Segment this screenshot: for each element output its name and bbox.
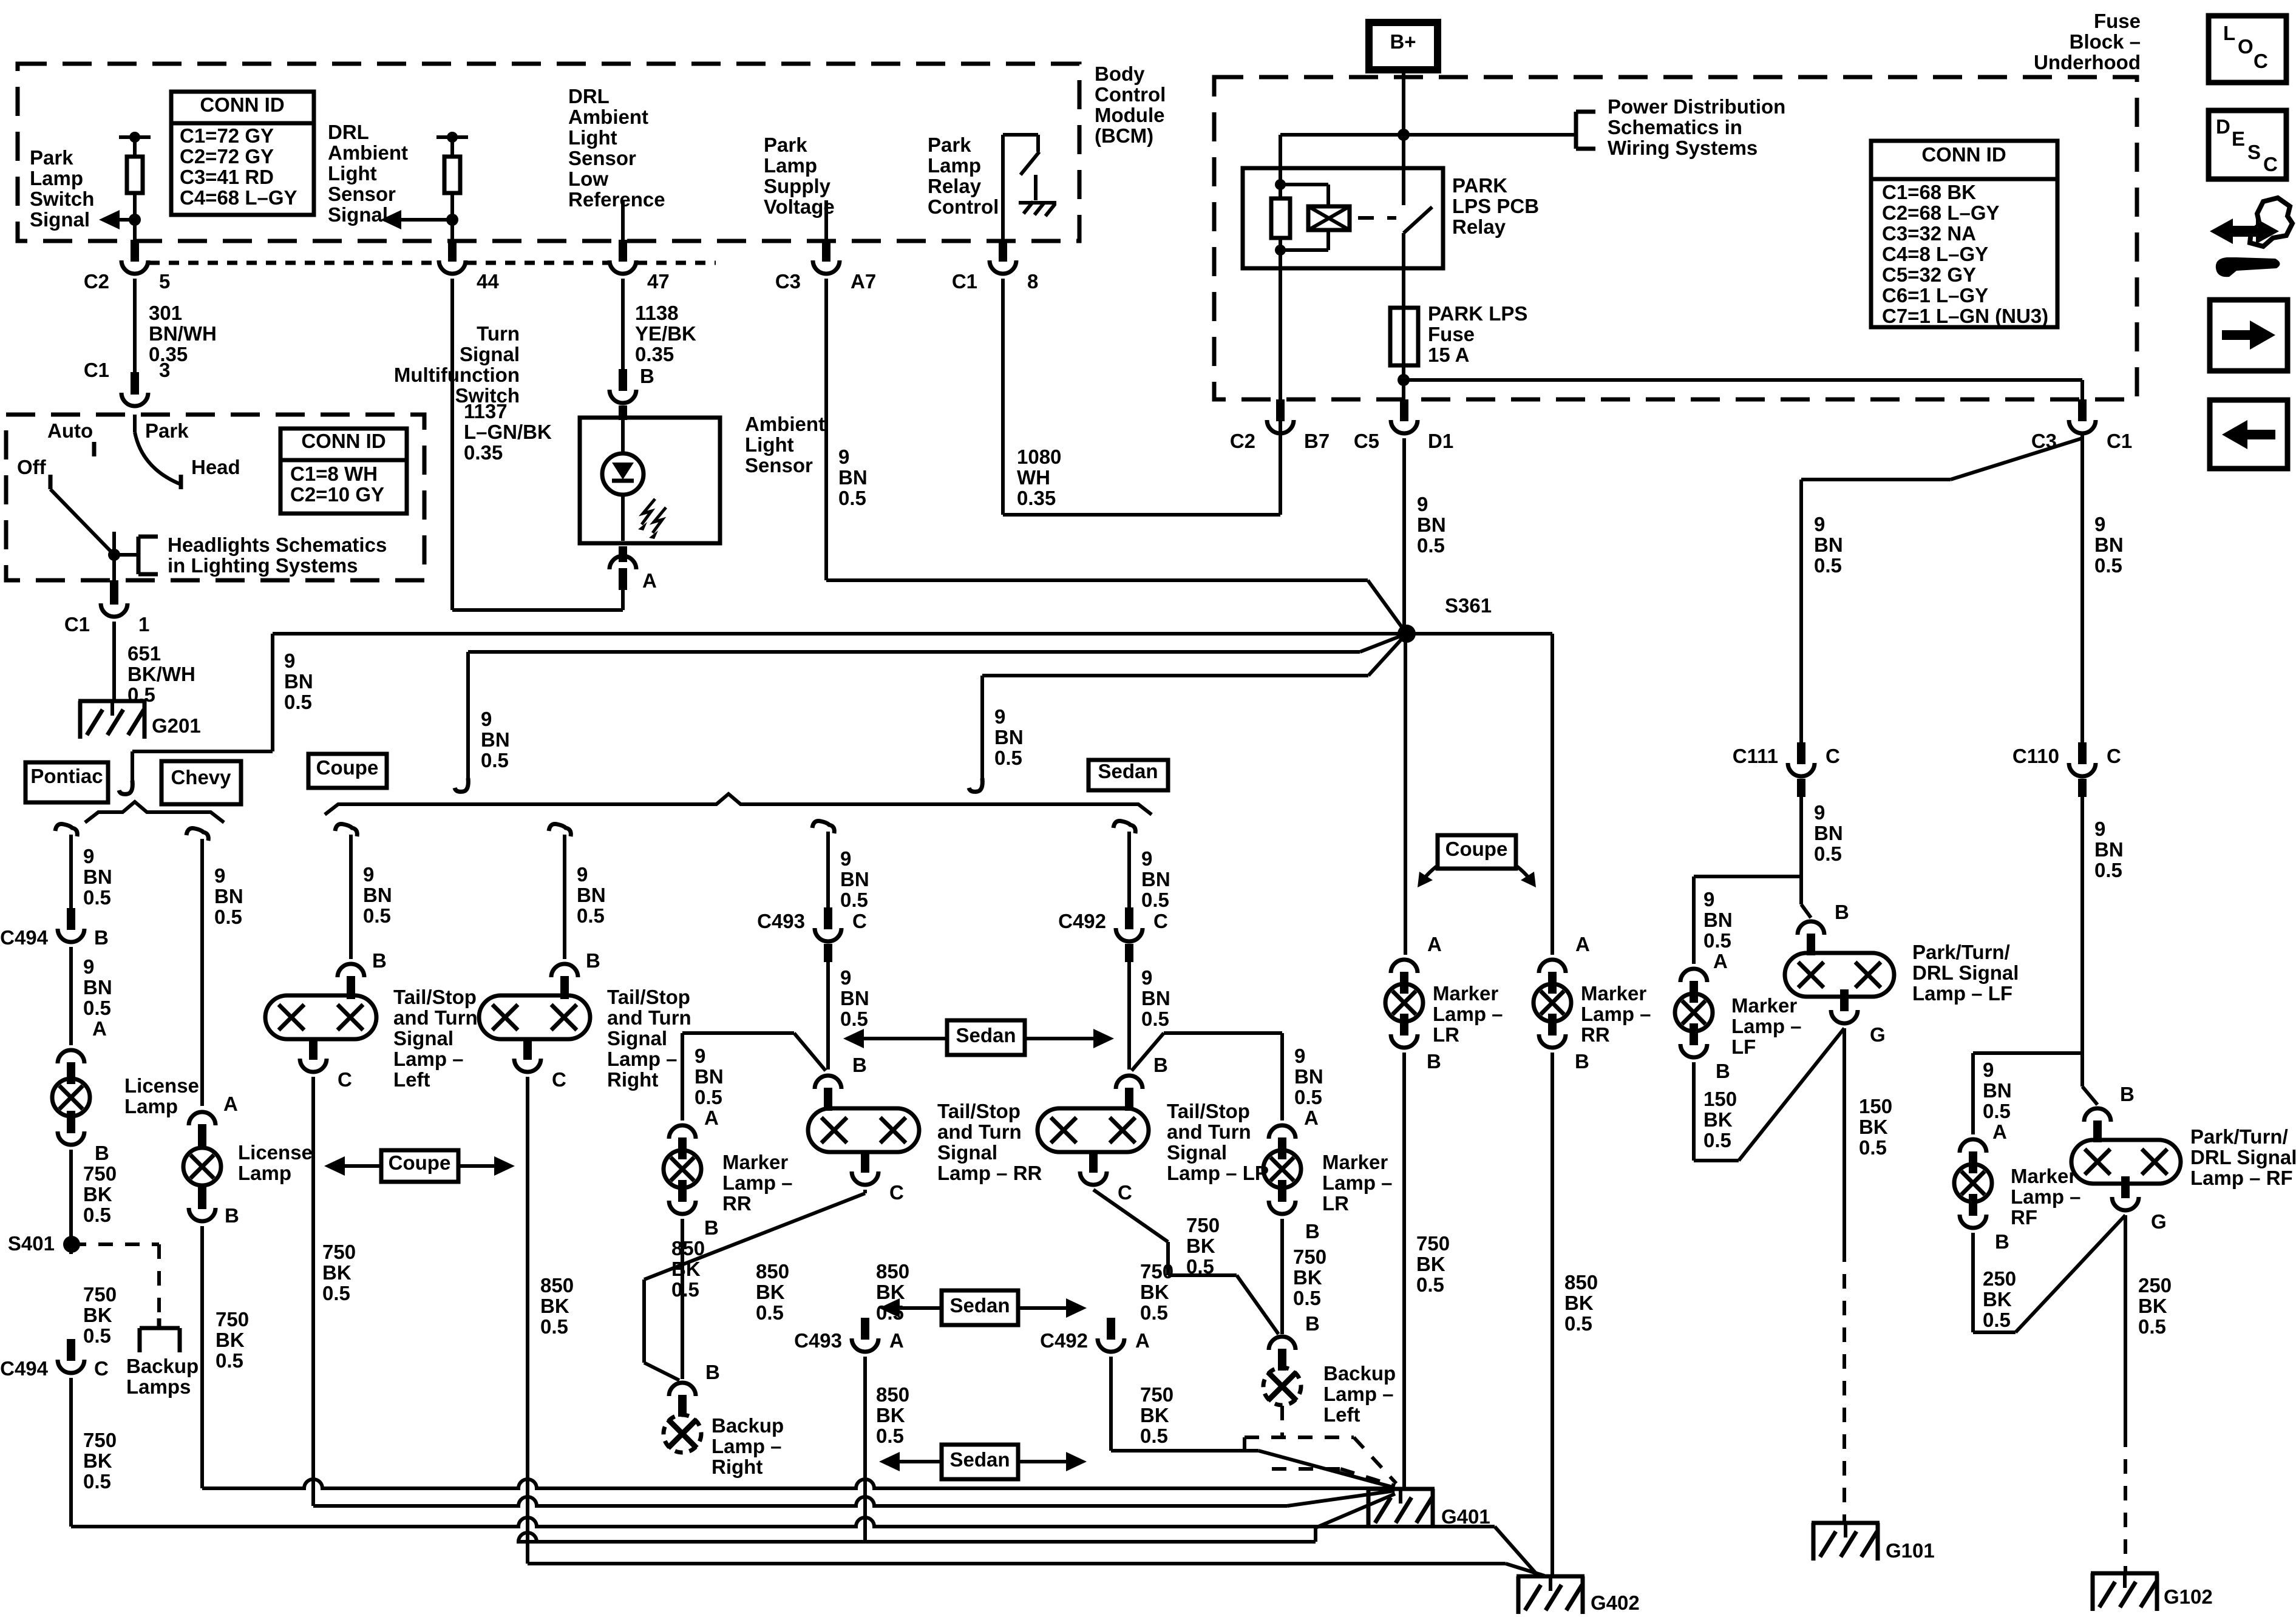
connector pin 44 (BCM) xyxy=(439,260,466,274)
wire park lamp supply inside BCM xyxy=(824,200,828,243)
svg-text:C: C xyxy=(852,910,867,932)
svg-text:8: 8 xyxy=(1027,270,1038,293)
svg-text:C1=8 WH: C1=8 WH xyxy=(290,463,378,485)
hook tail left wire xyxy=(335,824,357,836)
connector C493 pin C xyxy=(815,928,841,941)
svg-text:BK: BK xyxy=(540,1295,569,1317)
svg-text:B: B xyxy=(1716,1060,1730,1082)
connector pin B license lamp xyxy=(58,1131,84,1145)
svg-text:47: 47 xyxy=(647,270,670,293)
svg-text:B: B xyxy=(852,1054,867,1076)
arrow park lamp switch signal xyxy=(115,218,135,222)
svg-text:C: C xyxy=(2107,745,2121,767)
connector pin A license lamp xyxy=(58,1050,84,1063)
svg-text:L: L xyxy=(2223,22,2235,44)
Pontiac label box xyxy=(25,762,108,802)
svg-text:0.5: 0.5 xyxy=(1140,1425,1168,1447)
connector C2 pin 5 (BCM) xyxy=(121,260,148,274)
connector pin B tail lamp right xyxy=(551,964,578,977)
wire tail left ground run xyxy=(311,1077,315,1506)
reference bracket headlights schematics xyxy=(114,553,138,557)
svg-text:Coupe: Coupe xyxy=(1445,838,1508,860)
svg-text:B: B xyxy=(1995,1230,2009,1253)
wire C493A ground run xyxy=(863,1357,867,1542)
svg-text:G102: G102 xyxy=(2164,1585,2213,1608)
ground G401 xyxy=(1367,1487,1435,1491)
svg-text:15 A: 15 A xyxy=(1428,344,1469,366)
hook C492 wire xyxy=(1113,821,1135,833)
connector pin B license lamp chevy xyxy=(189,1208,216,1221)
connector pin G park/turn LF xyxy=(1831,1010,1858,1023)
svg-text:Lamp – RF: Lamp – RF xyxy=(2190,1167,2293,1189)
tail/stop turn signal lamp LR xyxy=(1038,1108,1149,1152)
svg-text:1137: 1137 xyxy=(464,400,508,422)
svg-text:C2=72 GY: C2=72 GY xyxy=(180,145,274,168)
svg-text:BN: BN xyxy=(994,726,1024,748)
svg-text:Right: Right xyxy=(607,1068,658,1091)
resistor R-park-lamp-switch xyxy=(133,137,137,157)
svg-text:License: License xyxy=(124,1074,199,1097)
connector pin A marker RR coupe xyxy=(1539,960,1566,973)
svg-text:Supply: Supply xyxy=(764,175,831,197)
svg-text:250: 250 xyxy=(1983,1267,2016,1290)
svg-text:C: C xyxy=(2263,153,2278,175)
brace coupe/sedan xyxy=(325,794,1152,815)
svg-text:Marker: Marker xyxy=(1581,982,1646,1005)
svg-text:Lamp –: Lamp – xyxy=(1731,1015,1802,1037)
svg-text:G: G xyxy=(1870,1023,1886,1046)
DESC icon box xyxy=(2209,110,2286,179)
svg-text:Signal: Signal xyxy=(607,1027,667,1049)
svg-text:BK: BK xyxy=(1140,1281,1169,1303)
svg-text:9: 9 xyxy=(284,649,295,672)
svg-text:BK: BK xyxy=(1703,1108,1733,1131)
svg-text:Signal: Signal xyxy=(393,1027,453,1049)
wire C492 to tail LR xyxy=(1127,962,1131,1070)
svg-text:750: 750 xyxy=(322,1241,356,1263)
wire marker LR sedan ground xyxy=(1280,1219,1284,1334)
svg-text:C1=72 GY: C1=72 GY xyxy=(180,124,274,147)
backup lamp left xyxy=(1263,1368,1301,1405)
svg-text:D: D xyxy=(2216,115,2230,138)
svg-text:BN: BN xyxy=(1983,1079,2012,1102)
wire tail RR ground to backup right xyxy=(863,1190,867,1193)
svg-text:9: 9 xyxy=(1814,801,1825,824)
svg-text:0.5: 0.5 xyxy=(1141,1008,1169,1030)
svg-text:BK: BK xyxy=(1859,1116,1888,1138)
connector pin A marker LF xyxy=(1680,969,1707,982)
ground G102 xyxy=(2091,1571,2159,1576)
wire relay to fuse xyxy=(1402,268,1405,308)
svg-text:Left: Left xyxy=(1323,1403,1360,1426)
svg-text:0.5: 0.5 xyxy=(1564,1312,1592,1335)
svg-text:B: B xyxy=(1835,901,1849,923)
branch to marker LR sedan xyxy=(1132,1033,1164,1071)
svg-text:Turn: Turn xyxy=(477,322,520,345)
svg-text:A: A xyxy=(642,569,657,592)
back arrow icon box xyxy=(2210,400,2288,469)
svg-text:C1: C1 xyxy=(952,270,977,293)
svg-text:Lamp: Lamp xyxy=(928,154,981,177)
svg-text:850: 850 xyxy=(1564,1271,1598,1293)
svg-text:9: 9 xyxy=(994,705,1005,728)
wrench navigation icon xyxy=(2210,219,2279,244)
svg-text:and Turn: and Turn xyxy=(937,1120,1022,1143)
wire relay coil to B7 xyxy=(1279,268,1282,412)
svg-text:9: 9 xyxy=(481,708,492,730)
svg-text:L–GN/BK: L–GN/BK xyxy=(464,421,552,443)
svg-text:44: 44 xyxy=(477,270,499,293)
B+ terminal box xyxy=(1369,22,1438,70)
wire 9 BN 0.5 supply to S361 xyxy=(824,279,828,580)
connector pin B marker LR sedan xyxy=(1269,1201,1296,1214)
svg-text:0.5: 0.5 xyxy=(840,1008,868,1030)
svg-text:C1: C1 xyxy=(84,359,109,381)
svg-text:Body: Body xyxy=(1095,63,1145,85)
svg-text:Lamp –: Lamp – xyxy=(1323,1383,1394,1405)
reference bracket power distribution xyxy=(1574,112,1578,149)
svg-text:0.5: 0.5 xyxy=(1814,554,1842,577)
wire chevy ground run xyxy=(200,1226,204,1488)
svg-text:C1: C1 xyxy=(64,613,90,636)
svg-text:Light: Light xyxy=(745,433,794,456)
park/turn/DRL signal lamp RF xyxy=(2071,1140,2181,1184)
svg-text:G: G xyxy=(2151,1210,2167,1233)
wire C110 to RF lamp xyxy=(2080,797,2084,1086)
svg-text:BN: BN xyxy=(1294,1065,1323,1088)
svg-text:S361: S361 xyxy=(1445,594,1492,617)
svg-text:B: B xyxy=(1305,1220,1320,1242)
svg-text:Lamp –: Lamp – xyxy=(712,1435,782,1457)
svg-text:Lamp – LF: Lamp – LF xyxy=(1912,982,2012,1005)
svg-text:5: 5 xyxy=(159,270,170,293)
svg-text:and Turn: and Turn xyxy=(607,1006,691,1029)
svg-text:DRL: DRL xyxy=(328,121,369,143)
branch to marker RR xyxy=(794,1033,826,1071)
connector pin B backup right xyxy=(669,1383,696,1396)
wire tail right ground run xyxy=(526,1077,529,1564)
connector pin B backup left xyxy=(1269,1337,1296,1350)
svg-text:C: C xyxy=(1118,1181,1132,1204)
svg-text:750: 750 xyxy=(83,1429,117,1451)
ground G101 xyxy=(1812,1521,1880,1525)
brace pontiac/chevy xyxy=(85,802,224,822)
connector pin B marker RF xyxy=(1960,1215,1986,1228)
connector pin B ambient light sensor xyxy=(610,390,636,403)
svg-text:Lamp – LR: Lamp – LR xyxy=(1167,1162,1269,1184)
hook C493 wire xyxy=(812,821,834,833)
svg-text:C4=8 L–GY: C4=8 L–GY xyxy=(1882,243,1988,265)
wire pontiac ground run xyxy=(69,1378,73,1527)
wire DRL sensor signal rail xyxy=(436,135,468,139)
svg-text:Ambient: Ambient xyxy=(568,106,648,128)
Sedan arrows box (lower) xyxy=(942,1445,1018,1479)
connector C494 pin B xyxy=(67,908,75,924)
svg-text:C: C xyxy=(94,1357,109,1380)
connector C1 pin 1 (switch) xyxy=(110,580,118,598)
svg-text:BN/WH: BN/WH xyxy=(149,322,217,345)
svg-text:BN: BN xyxy=(695,1065,724,1088)
wire pontiac chevy feed xyxy=(271,634,274,751)
backup lamps reference bracket xyxy=(157,1318,161,1328)
relay switch xyxy=(1402,168,1405,205)
svg-text:BK: BK xyxy=(876,1404,905,1426)
connector pin B park/turn LF xyxy=(1798,921,1824,935)
svg-text:651: 651 xyxy=(127,642,161,665)
svg-text:0.35: 0.35 xyxy=(635,343,674,365)
svg-text:Park/Turn/: Park/Turn/ xyxy=(1912,941,2010,963)
relay actuator dashed link xyxy=(1358,216,1396,220)
svg-text:Reference: Reference xyxy=(568,188,665,211)
backup lamp right xyxy=(664,1415,701,1453)
svg-text:9: 9 xyxy=(1814,513,1825,535)
svg-text:Lamp –: Lamp – xyxy=(1322,1171,1393,1194)
wire C492A ground run xyxy=(1109,1357,1113,1451)
connector C1 pin 3 xyxy=(121,393,148,406)
svg-text:9: 9 xyxy=(1703,888,1714,910)
connector C492 pin C xyxy=(1116,928,1143,941)
wire marker LR coupe feed xyxy=(1391,960,1418,973)
svg-text:0.5: 0.5 xyxy=(671,1278,699,1301)
connector pin A marker RR xyxy=(669,1125,696,1139)
svg-text:A: A xyxy=(1575,933,1590,955)
BCM relay driver switch xyxy=(1003,133,1038,137)
svg-text:Module: Module xyxy=(1095,104,1164,126)
svg-text:Sensor: Sensor xyxy=(745,454,813,476)
svg-text:Relay: Relay xyxy=(1452,215,1506,238)
wire 301 BN/WH 0.35 xyxy=(133,279,137,378)
svg-text:0.5: 0.5 xyxy=(322,1282,350,1304)
connector C2 pin B7 xyxy=(1267,420,1294,433)
svg-text:Park: Park xyxy=(928,134,971,156)
svg-text:and Turn: and Turn xyxy=(1167,1120,1251,1143)
svg-text:C: C xyxy=(1153,910,1168,932)
svg-text:BN: BN xyxy=(481,728,510,751)
svg-text:0.5: 0.5 xyxy=(363,904,391,927)
svg-text:Signal: Signal xyxy=(328,203,388,226)
svg-text:9: 9 xyxy=(1983,1059,1994,1081)
wire 651 BK/WH 0.5 xyxy=(112,622,116,701)
svg-text:Backup: Backup xyxy=(1323,1362,1396,1385)
svg-text:0.5: 0.5 xyxy=(1859,1136,1887,1159)
svg-text:750: 750 xyxy=(1140,1260,1173,1283)
ground G402 xyxy=(1517,1575,1584,1579)
svg-text:LPS PCB: LPS PCB xyxy=(1452,195,1539,217)
svg-text:A: A xyxy=(1427,933,1442,955)
svg-text:Backup: Backup xyxy=(126,1355,199,1377)
svg-text:0.5: 0.5 xyxy=(540,1315,568,1338)
wire pin 47 inside BCM xyxy=(621,200,625,243)
fuse PARK LPS 15A xyxy=(1390,308,1418,365)
svg-text:Lamp –: Lamp – xyxy=(1581,1003,1651,1025)
connector C3 pin A7 (BCM) xyxy=(813,260,840,274)
svg-text:9: 9 xyxy=(695,1045,705,1067)
arrow DRL sensor signal xyxy=(396,218,452,222)
svg-text:Light: Light xyxy=(328,162,377,185)
svg-text:Block –: Block – xyxy=(2070,30,2141,53)
svg-text:0.5: 0.5 xyxy=(1293,1287,1321,1309)
svg-text:0.5: 0.5 xyxy=(994,747,1022,769)
svg-text:Tail/Stop: Tail/Stop xyxy=(607,986,690,1008)
svg-text:1080: 1080 xyxy=(1017,446,1061,468)
svg-text:A: A xyxy=(1304,1107,1319,1129)
svg-text:Control: Control xyxy=(1095,83,1166,106)
svg-text:BK: BK xyxy=(83,1304,112,1326)
wire backup left dashed ground xyxy=(1280,1406,1284,1437)
svg-text:750: 750 xyxy=(83,1162,117,1185)
wire RF ground to G102 xyxy=(2124,1215,2127,1432)
svg-text:B: B xyxy=(225,1204,239,1227)
wire to C2 pin 5 xyxy=(133,220,137,243)
connector C110 pin C xyxy=(2069,763,2096,776)
svg-text:BN: BN xyxy=(1141,868,1170,890)
svg-text:Voltage: Voltage xyxy=(764,195,835,218)
connector C3 pin C1 (right) xyxy=(2069,420,2096,433)
svg-text:9: 9 xyxy=(1141,847,1152,870)
fuse block dashed box xyxy=(1214,77,2137,399)
svg-text:Lamp – RR: Lamp – RR xyxy=(937,1162,1042,1184)
curl sedan drop feed xyxy=(969,778,982,792)
curl pontiac chevy feed xyxy=(119,781,132,794)
svg-text:0.5: 0.5 xyxy=(214,906,242,928)
svg-text:BN: BN xyxy=(1814,822,1843,844)
svg-text:9: 9 xyxy=(1141,966,1152,989)
Coupe arrows box (right) xyxy=(1438,835,1516,869)
svg-text:A: A xyxy=(889,1329,904,1352)
svg-text:C: C xyxy=(889,1181,904,1204)
connector C494 pin C xyxy=(58,1360,84,1373)
svg-text:S: S xyxy=(2247,141,2261,163)
svg-text:C1=68 BK: C1=68 BK xyxy=(1882,181,1976,203)
wire marker RF ground xyxy=(1971,1233,1975,1332)
wire S361 east to marker RR xyxy=(1407,632,1552,636)
marker lamp LF xyxy=(1675,994,1713,1031)
svg-text:850: 850 xyxy=(876,1383,909,1406)
svg-text:C2: C2 xyxy=(84,270,109,293)
dashed branch to backup lamps xyxy=(72,1242,159,1246)
connector pin B marker LF xyxy=(1680,1044,1707,1057)
svg-text:License: License xyxy=(238,1141,313,1164)
tail/stop turn signal lamp left xyxy=(265,995,376,1039)
svg-text:B7: B7 xyxy=(1304,430,1330,452)
svg-text:BK: BK xyxy=(756,1281,785,1303)
svg-text:B: B xyxy=(586,949,600,972)
svg-text:C: C xyxy=(1826,745,1840,767)
photodiode ambient light sensor xyxy=(621,420,625,454)
svg-text:BK: BK xyxy=(2138,1295,2167,1317)
wire 9 BN 0.5 to C110 xyxy=(2080,438,2084,754)
svg-text:C5=32 GY: C5=32 GY xyxy=(1882,263,1976,286)
svg-text:150: 150 xyxy=(1703,1088,1737,1110)
wire LF ground to G101 xyxy=(1843,1028,1846,1247)
svg-text:1138: 1138 xyxy=(635,302,679,324)
svg-text:G101: G101 xyxy=(1886,1539,1935,1562)
hook pontiac wire xyxy=(55,824,77,836)
svg-text:C2=10 GY: C2=10 GY xyxy=(290,483,384,506)
svg-text:B: B xyxy=(94,926,109,949)
hook tail right wire xyxy=(549,824,571,836)
svg-text:C494: C494 xyxy=(0,1357,49,1380)
svg-text:WH: WH xyxy=(1017,466,1050,489)
wire marker LR coupe ground xyxy=(1402,1053,1406,1489)
svg-text:0.5: 0.5 xyxy=(1416,1273,1444,1296)
svg-text:Lamp: Lamp xyxy=(124,1095,178,1117)
svg-text:BK: BK xyxy=(83,1449,112,1472)
svg-text:750: 750 xyxy=(1416,1232,1450,1255)
svg-text:Sedan: Sedan xyxy=(1098,760,1158,782)
svg-text:0.5: 0.5 xyxy=(2138,1315,2166,1338)
svg-text:0.35: 0.35 xyxy=(1017,487,1056,509)
svg-text:C: C xyxy=(2254,50,2268,72)
wire park lamp switch signal rail xyxy=(119,135,151,139)
svg-text:C493: C493 xyxy=(794,1329,842,1352)
svg-text:PARK: PARK xyxy=(1452,174,1507,197)
branch to marker LF xyxy=(1694,875,1801,878)
svg-text:Power Distribution: Power Distribution xyxy=(1608,95,1785,118)
svg-text:O: O xyxy=(2238,35,2254,58)
svg-text:LF: LF xyxy=(1731,1036,1756,1058)
svg-text:BK: BK xyxy=(1293,1266,1322,1289)
wire marker LF ground xyxy=(1692,1062,1696,1161)
wire B+ feed xyxy=(1402,70,1405,168)
connector C493 pin A xyxy=(852,1338,878,1352)
svg-text:Fuse: Fuse xyxy=(2094,10,2141,32)
connector pin B tail lamp left xyxy=(338,964,364,977)
svg-text:Left: Left xyxy=(393,1068,430,1091)
svg-text:Underhood: Underhood xyxy=(2034,51,2141,73)
svg-text:750: 750 xyxy=(1293,1246,1326,1268)
svg-text:Off: Off xyxy=(17,456,47,478)
svg-text:Lamps: Lamps xyxy=(126,1375,191,1398)
svg-text:B: B xyxy=(2120,1083,2135,1105)
svg-text:B: B xyxy=(1153,1054,1168,1076)
connector C1 pin 8 (BCM) xyxy=(990,260,1016,274)
svg-text:C: C xyxy=(338,1068,352,1091)
curl coupe brace feed xyxy=(455,778,468,792)
ambient light sensor box xyxy=(580,418,720,543)
svg-text:BK/WH: BK/WH xyxy=(127,663,195,685)
svg-text:0.5: 0.5 xyxy=(1140,1301,1168,1324)
svg-text:BK: BK xyxy=(1186,1235,1215,1257)
svg-text:C2=68 L–GY: C2=68 L–GY xyxy=(1882,202,2000,224)
relay box PARK LPS PCB xyxy=(1243,168,1443,268)
svg-text:850: 850 xyxy=(540,1274,574,1297)
svg-text:B: B xyxy=(704,1216,719,1239)
connector pin B tail LR xyxy=(1116,1076,1143,1089)
svg-text:A: A xyxy=(92,1017,107,1040)
svg-text:C6=1 L–GY: C6=1 L–GY xyxy=(1882,284,1988,307)
wire 1137 L-GN/BK 0.35 xyxy=(450,279,454,610)
svg-text:Wiring Systems: Wiring Systems xyxy=(1608,137,1758,159)
svg-text:Marker: Marker xyxy=(1731,994,1797,1017)
svg-text:B: B xyxy=(1305,1312,1320,1335)
connector C5 pin D1 xyxy=(1391,420,1418,433)
wire C494 to license lamp xyxy=(69,947,73,1045)
connector pin A marker LR sedan xyxy=(1269,1125,1296,1139)
svg-text:C3: C3 xyxy=(775,270,801,293)
ground G201 xyxy=(78,699,146,703)
svg-text:Relay: Relay xyxy=(928,175,982,197)
svg-text:Head: Head xyxy=(191,456,240,478)
wire S361 fan to sedan drop xyxy=(982,674,1368,677)
svg-text:Auto: Auto xyxy=(47,419,93,442)
svg-text:A: A xyxy=(1713,950,1728,972)
svg-text:Schematics in: Schematics in xyxy=(1608,116,1742,138)
svg-text:C493: C493 xyxy=(757,910,805,932)
CONN ID table (fuse block) xyxy=(1871,141,2057,327)
wire to pin 44 xyxy=(450,220,454,243)
license lamp (pontiac) xyxy=(52,1079,90,1116)
